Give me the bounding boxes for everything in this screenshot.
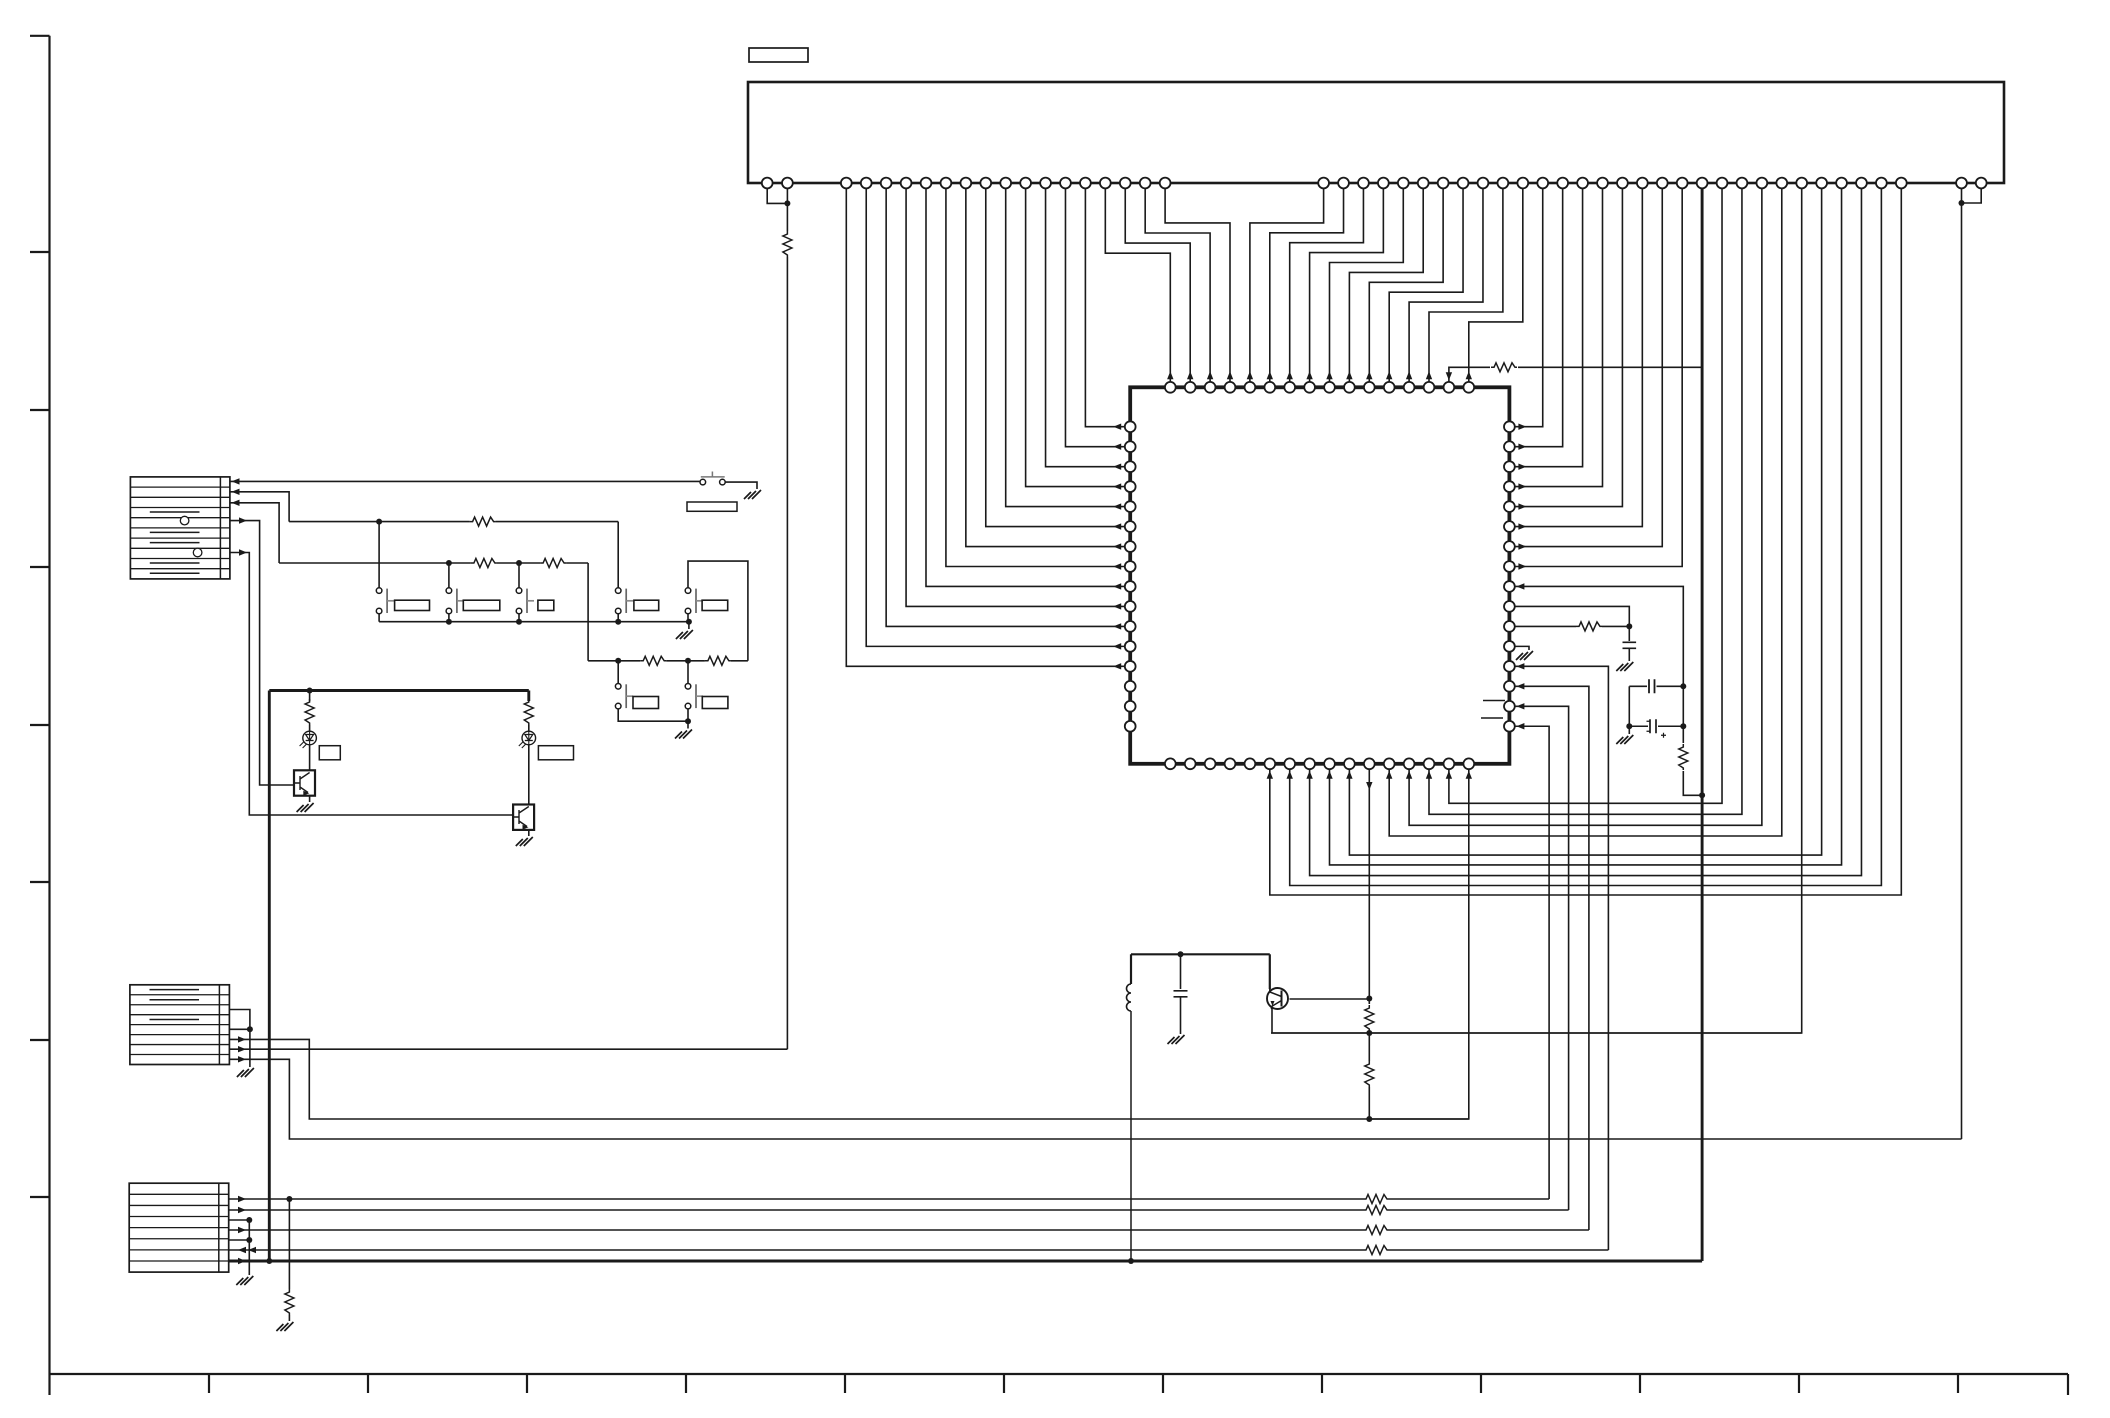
wire S1 to ground bbox=[725, 482, 757, 489]
wire CN1 group1 pin14 staircase to IC top pin 1 bbox=[1105, 183, 1170, 382]
wire CN1 group2 pin6 staircase to IC top pin 10 bbox=[1349, 183, 1423, 382]
label box for LED D2 bbox=[538, 746, 573, 760]
arrow out of IC right pin 7 bbox=[1518, 543, 1526, 549]
wire IC bottom pin 16 down to row-C net bbox=[1369, 769, 1469, 1119]
junction rail / LED D1 branch bbox=[307, 688, 313, 694]
wire CN1 group2 pin17 down to IC right pin 6 bbox=[1515, 183, 1643, 527]
wire row C corner down to lower bus bbox=[587, 563, 589, 661]
wire CN1 group2 pin2 staircase to IC top pin 6 bbox=[1270, 183, 1344, 382]
arrow out of IC right pin 8 bbox=[1518, 563, 1526, 569]
wire bus1 to ground bbox=[688, 622, 690, 629]
arrow into IC bottom pin bbox=[1287, 771, 1293, 779]
junction row C / key S3 bbox=[446, 560, 452, 566]
wire CN1 group2 pin3 staircase to IC top pin 7 bbox=[1290, 183, 1364, 382]
wire CN1 group1 pin1 to IC left pin 13 bbox=[846, 183, 1125, 666]
connector CN3 body bbox=[130, 985, 230, 1065]
arrow out of CN2 row4 bbox=[239, 517, 247, 523]
ground below C4 bbox=[1168, 1035, 1185, 1044]
wire Q2 emitter to ground bbox=[528, 830, 530, 836]
resistor R5 bbox=[1365, 1061, 1374, 1087]
connector CN2 pin column divider bbox=[219, 477, 221, 579]
ground below R14 bbox=[276, 1322, 293, 1331]
wire CN1 group1 pin10 to IC left pin 4 bbox=[1026, 183, 1125, 487]
wire CN4 ground stub down bbox=[248, 1220, 250, 1275]
wire key S4 stem bbox=[518, 563, 520, 588]
arrow out of IC top pin 3 bbox=[1207, 371, 1213, 379]
junction lower bus / key S7 bbox=[615, 658, 621, 664]
capacitor C1 bbox=[1623, 642, 1637, 648]
wire CN4 row2 key-scan net bbox=[229, 1209, 1363, 1211]
ground below CN4 bbox=[236, 1276, 253, 1285]
page border left ruler bbox=[30, 36, 50, 1395]
resistor R7 on row C bbox=[471, 559, 497, 568]
arrow out of IC top pin 6 bbox=[1267, 371, 1273, 379]
key S8 bbox=[695, 684, 697, 708]
arrow out of CN4 row4 bbox=[238, 1227, 246, 1233]
wire CN1 group2 pin9 staircase to IC top pin 13 bbox=[1409, 183, 1483, 382]
IC U1 internal mark near right pin 16 bbox=[1481, 717, 1503, 719]
wire CN1 group2 pin7 staircase to IC top pin 11 bbox=[1369, 183, 1443, 382]
wire R2 to power vertical bbox=[1683, 771, 1702, 795]
arrow out of IC right pin 6 bbox=[1518, 523, 1526, 529]
wire IC right pin 11 with resistor R3 bbox=[1515, 625, 1576, 627]
connector CN4 body bbox=[129, 1183, 229, 1272]
wire key S7 stem bbox=[617, 661, 619, 684]
wire CN1 group1 pin7 to IC left pin 7 bbox=[966, 183, 1125, 547]
wire CN1 group1 pin15 staircase to IC top pin 2 bbox=[1125, 183, 1190, 382]
wire CN1 group2 pin13 down to IC right pin 2 bbox=[1515, 183, 1563, 447]
wire CN2 row5 to transistor Q2 base bbox=[230, 553, 512, 816]
arrow into IC left pin 1 bbox=[1113, 424, 1121, 430]
arrow out of IC top pin 10 bbox=[1346, 371, 1352, 379]
junction bus2 / ground bbox=[685, 718, 691, 724]
arrows into CN4 row6 bbox=[238, 1247, 246, 1253]
wire CN3 rowA stub bbox=[229, 1010, 250, 1030]
arrow out of IC right pin 1 bbox=[1518, 424, 1526, 430]
arrow out of CN4 row1 bbox=[238, 1196, 246, 1202]
wire R14 to ground bbox=[288, 1315, 290, 1321]
wire rail right corner down to R12 bbox=[527, 691, 530, 702]
wire crystal cap line C2 bbox=[1629, 685, 1647, 687]
resistor R3 bbox=[1576, 622, 1602, 631]
power switch S1 contacts bbox=[700, 479, 706, 485]
wire D1 to Q1 collector bbox=[309, 745, 311, 771]
resistor R1 bbox=[783, 231, 792, 257]
arrow out of IC right pin 5 bbox=[1518, 503, 1526, 509]
wire IC right pin 15 down to key-scan row bbox=[1515, 706, 1569, 1210]
junction Q3 base / pin11 wire bbox=[1366, 996, 1372, 1002]
connector CN3 pin column divider bbox=[218, 985, 220, 1065]
junction bus1 / S6 / ground bbox=[686, 619, 692, 625]
connector CN4 partition lines bbox=[129, 1194, 229, 1261]
wire CN1 group1 pin16 staircase to IC top pin 3 bbox=[1145, 183, 1210, 382]
junction bus1 / S3 bbox=[446, 619, 452, 625]
wire row B corner down to key S5 bbox=[617, 522, 619, 588]
power switch S1 actuator bar bbox=[701, 472, 725, 477]
arrow into IC bottom pin bbox=[1386, 771, 1392, 779]
transistor Q1 bbox=[294, 770, 315, 795]
wire CN1 group1 pin5 to IC left pin 9 bbox=[926, 183, 1125, 586]
resistor R8 on row C bbox=[540, 559, 566, 568]
wire CN1 group2 pin19 down to IC right pin 8 bbox=[1515, 183, 1682, 566]
arrow into IC left pin 11 bbox=[1113, 623, 1121, 629]
wire CN1 group1 pin4 to IC left pin 10 bbox=[906, 183, 1125, 606]
transistor Q2 bbox=[513, 805, 534, 830]
wire CN1 group1 pin2 to IC left pin 12 bbox=[866, 183, 1125, 646]
inductor L1 bbox=[1127, 984, 1132, 1011]
wire key S8 stem bbox=[687, 661, 689, 684]
wire CN2 row3 elbow down to key row C bbox=[230, 503, 279, 563]
power row wire (thick) bbox=[229, 1260, 1702, 1263]
wire CN1 right pin elbow bbox=[1962, 183, 1982, 203]
connector CN2 partition lines bbox=[130, 487, 230, 569]
wire rail left down to inductor L1 bbox=[1130, 954, 1132, 984]
arrow into IC top pin 15 from pull-up bbox=[1449, 367, 1490, 382]
arrow out of IC top pin 8 bbox=[1306, 371, 1312, 379]
arrow into IC left pin 6 bbox=[1113, 523, 1121, 529]
resistor R10 on lower bus bbox=[705, 656, 731, 665]
wire R5 down to row-C net bbox=[1368, 1087, 1370, 1119]
wire right pair vertical down to row-E net bbox=[1961, 183, 1963, 1139]
junction CN3 rowA/rowB bbox=[247, 1026, 253, 1032]
oscillator rail wire bbox=[1131, 953, 1270, 955]
connector CN2 inner contact lines bbox=[150, 512, 200, 573]
junction R3 / C1 node bbox=[1626, 623, 1632, 629]
junction row C / key S4 bbox=[516, 560, 522, 566]
wire R18 to power vertical bbox=[1518, 366, 1702, 368]
junction L1 / power row bbox=[1128, 1258, 1134, 1264]
connector CN2 contact circle A bbox=[180, 516, 189, 525]
CN1 pin circles bbox=[762, 178, 773, 189]
arrow into IC left pin 7 bbox=[1113, 543, 1121, 549]
junction row5 / ground stub bbox=[246, 1237, 252, 1243]
wire C4 stem bbox=[1180, 954, 1182, 989]
wire CN3 rowA/B to ground bbox=[249, 1029, 251, 1067]
wire IC right pin 10 to capacitor C1 bbox=[1515, 606, 1630, 641]
wire key S3 stem bbox=[448, 563, 450, 588]
arrow into IC right pin 14 bbox=[1516, 683, 1524, 689]
microcontroller IC U1 body bbox=[1130, 387, 1509, 764]
key S2 bbox=[386, 589, 388, 613]
arrow out of CN3 rowE bbox=[238, 1056, 246, 1062]
plus mark of C3 bbox=[1661, 733, 1666, 738]
arrow out of IC top pin 1 bbox=[1167, 371, 1173, 379]
arrow into IC bottom pin bbox=[1406, 771, 1412, 779]
LED D1 bbox=[303, 731, 317, 745]
wire S5 bottom stem bbox=[617, 614, 619, 622]
junction pin11 wire / emitter row bbox=[1366, 1030, 1372, 1036]
wire key S2 stem bbox=[378, 522, 380, 588]
wire S6 bottom stem bbox=[687, 614, 689, 622]
wire IC bottom pin 11 down to transistor Q3 node bbox=[1368, 769, 1370, 1004]
LED power rail (thick) bbox=[269, 689, 529, 692]
arrow out of CN4 row2 bbox=[238, 1207, 246, 1213]
arrow into CN2 row3 bbox=[232, 500, 240, 506]
resistor R11 bbox=[305, 699, 314, 725]
connector CN2 contact circle B bbox=[193, 548, 202, 557]
wire CN1 group2 nest pin to IC bottom pin via level 895.0 bbox=[1270, 183, 1902, 895]
arrow into IC bottom pin bbox=[1306, 771, 1312, 779]
wire S2 bottom stem bbox=[378, 614, 380, 622]
wire CN1 group2 nest pin to IC bottom pin via level 885.5 bbox=[1290, 183, 1882, 886]
capacitor C3 bbox=[1650, 719, 1656, 733]
IC U1 bottom pin circles bbox=[1165, 758, 1176, 769]
wire CN4 row5 stub bbox=[229, 1239, 250, 1241]
key row B wire bbox=[289, 521, 470, 523]
arrow into IC right pin 16 bbox=[1516, 723, 1524, 729]
wire CN3 rowB stub bbox=[229, 1028, 250, 1030]
wire C3 left to ground bbox=[1628, 726, 1630, 734]
wire CN1 group2 nest pin to IC bottom pin via level 825.3 bbox=[1409, 183, 1762, 825]
arrow out of CN4 row7 bbox=[238, 1258, 246, 1264]
IC U1 left pin circles bbox=[1125, 421, 1136, 432]
wire IC right pin 12 to ground bbox=[1515, 646, 1529, 650]
label box for LED D1 bbox=[319, 746, 340, 760]
arrow into IC left pin 13 bbox=[1113, 663, 1121, 669]
key S7 bbox=[625, 684, 627, 708]
wire R12 to LED D2 bbox=[528, 725, 530, 731]
page border bottom ruler bbox=[50, 1374, 2069, 1395]
wire CN1 group2 pin25 long vertical down to Q3 emitter row bbox=[1271, 183, 1802, 1033]
arrow into IC bottom pin bbox=[1346, 771, 1352, 779]
wire CN1 group1 pin11 to IC left pin 3 bbox=[1046, 183, 1125, 467]
IC U1 right pin circles bbox=[1504, 421, 1515, 432]
wire CN3 rowD to pull-up net bbox=[229, 1048, 787, 1050]
wire IC right pin 14 down to key-scan row bbox=[1515, 686, 1589, 1230]
wire CN1 group2 nest pin to IC bottom pin via level 803.3 bbox=[1449, 183, 1722, 803]
wire S3 bottom stem bbox=[448, 614, 450, 622]
keys bottom bus row1 bbox=[379, 621, 689, 623]
resistor R6 on row B bbox=[470, 517, 496, 526]
wire Q1 emitter to ground bbox=[309, 796, 311, 802]
wire IC right pin 9 to crystal line bbox=[1515, 586, 1684, 743]
junction crystal line / power vertical bbox=[1699, 792, 1705, 798]
arrow out of CN3 rowC bbox=[238, 1036, 246, 1042]
wire CN1 group2 nest pin to IC bottom pin via level 855.1 bbox=[1349, 183, 1821, 855]
junction row1 / pull-down resistor bbox=[286, 1196, 292, 1202]
display connector CN1 body bbox=[748, 82, 2004, 183]
arrow into IC left pin 12 bbox=[1113, 643, 1121, 649]
wire CN1 group2 pin10 staircase to IC top pin 14 bbox=[1429, 183, 1503, 382]
wire R11 to LED D1 bbox=[309, 725, 311, 731]
wire IC right pin 16 down to key-scan row bbox=[1515, 726, 1549, 1199]
power wire from CN1 group2 pin20 (thick) down to power row bbox=[1701, 183, 1704, 1261]
arrow into IC right pin 15 bbox=[1516, 703, 1524, 709]
ground at Q1 bbox=[297, 803, 314, 812]
label box for switch S1 bbox=[687, 502, 737, 511]
junction C3 left bbox=[1626, 723, 1632, 729]
wire C4 to ground bbox=[1180, 997, 1182, 1034]
transistor Q3 bbox=[1267, 988, 1288, 1009]
arrow into CN2 row2 bbox=[232, 489, 240, 495]
wire CN3 rowC to row-C long net bbox=[229, 1039, 1468, 1119]
resistor R17 on row6 bbox=[1363, 1246, 1389, 1255]
arrow into IC left pin 5 bbox=[1113, 503, 1121, 509]
capacitor C2 bbox=[1649, 679, 1655, 693]
wire CN1 group1 pin13 to IC left pin 1 bbox=[1085, 183, 1124, 427]
arrow out of IC top pin 12 bbox=[1386, 371, 1392, 379]
ground below C1 bbox=[1616, 662, 1633, 671]
wire CN1 group2 pin18 down to IC right pin 7 bbox=[1515, 183, 1662, 547]
arrow out of IC top pin 5 bbox=[1247, 371, 1253, 379]
wire S4 bottom stem bbox=[518, 614, 520, 622]
wire CN1 group2 pin5 staircase to IC top pin 9 bbox=[1330, 183, 1404, 382]
wire CN1 group2 pin16 down to IC right pin 5 bbox=[1515, 183, 1623, 507]
arrow out of IC top pin 11 bbox=[1366, 371, 1372, 379]
ground at S1 bbox=[744, 490, 761, 499]
connector CN3 inner contact lines bbox=[150, 990, 200, 1020]
ground at bus2 bbox=[675, 730, 692, 739]
connector CN4 pin column divider bbox=[218, 1183, 220, 1272]
resistor R2 on crystal line bbox=[1679, 744, 1688, 770]
resistor R16 on row4 bbox=[1363, 1226, 1389, 1235]
wire CN4 row3 stub bbox=[229, 1219, 250, 1221]
key S4 bbox=[526, 589, 528, 613]
key S3 bbox=[456, 589, 458, 613]
junction row3 / ground stub bbox=[246, 1217, 252, 1223]
wire CN2 row1 (power switch net) bbox=[230, 480, 700, 482]
junction pin11 net / row-C bbox=[1366, 1116, 1372, 1122]
junction thick power / power row bbox=[266, 1258, 272, 1264]
wire CN1 group2 nest pin to IC bottom pin via level 814.3 bbox=[1429, 183, 1742, 814]
arrow into IC bottom pin 16 bbox=[1466, 771, 1472, 779]
wire R4 to emitter row bbox=[1368, 1031, 1370, 1033]
wire IC right pin 13 down to key-scan row bbox=[1515, 666, 1609, 1250]
wire CN2 row2 elbow down to key row B bbox=[230, 492, 289, 522]
junction bus1 / S4 bbox=[516, 619, 522, 625]
lower key bus wire bbox=[588, 660, 640, 662]
label box for connector CN1 bbox=[749, 48, 808, 62]
arrow out of IC right pin 4 bbox=[1518, 483, 1526, 489]
wire CN1 group2 pin12 down to IC right pin 1 bbox=[1515, 183, 1543, 427]
arrow into CN2 row1 bbox=[232, 478, 240, 484]
LED D2 bbox=[522, 731, 536, 745]
resistor R4 on pin11 wire bbox=[1365, 1005, 1374, 1031]
junction lower bus / key S8 bbox=[685, 658, 691, 664]
junction C2 right on crystal line bbox=[1680, 683, 1686, 689]
wire R1 down to row-D net bbox=[786, 257, 788, 1049]
arrow out of IC right pin 3 bbox=[1518, 463, 1526, 469]
junction bus1 / S5 bbox=[615, 619, 621, 625]
arrow out of IC right pin 2 bbox=[1518, 443, 1526, 449]
key S5 bbox=[625, 589, 627, 613]
wire CN1 group2 nest pin to IC bottom pin via level 864.9 bbox=[1330, 183, 1842, 865]
wire CN1 group1 pin17 staircase to IC top pin 4 bbox=[1165, 183, 1230, 382]
wire R3 to C1 node bbox=[1602, 625, 1629, 627]
wire CN1 group2 pin4 staircase to IC top pin 8 bbox=[1310, 183, 1384, 382]
ground at bus1 bbox=[676, 630, 693, 639]
IC U1 top pin circles bbox=[1165, 382, 1176, 393]
resistor R9 on lower bus bbox=[640, 656, 666, 665]
connector CN3 partition lines bbox=[130, 995, 230, 1055]
keys bottom bus row2 bbox=[618, 709, 688, 721]
wire Q3 emitter row to CN1 pin25 vertical bbox=[1272, 1008, 1802, 1033]
connector CN2 body bbox=[130, 477, 230, 579]
arrow into IC right pin 9 bbox=[1516, 583, 1524, 589]
arrow into IC left pin 3 bbox=[1113, 463, 1121, 469]
wire CN3 rowE to row-E long net bbox=[229, 1059, 1961, 1139]
arrow into IC bottom pin bbox=[1446, 771, 1452, 779]
wire D1 branch upper bbox=[309, 691, 311, 702]
arrow out of IC top pin 13 bbox=[1406, 371, 1412, 379]
IC U1 internal mark near right pin 15 bbox=[1483, 700, 1505, 702]
arrow out of IC top pin 2 bbox=[1187, 371, 1193, 379]
arrow into IC left pin 9 bbox=[1113, 583, 1121, 589]
arrow out of IC top pin 7 bbox=[1287, 371, 1293, 379]
wire CN4 row4 key-scan net bbox=[229, 1229, 1363, 1231]
page border left tick marks bbox=[30, 252, 50, 1197]
ground at Q2 bbox=[516, 837, 533, 846]
arrow out of IC top pin 9 bbox=[1326, 371, 1332, 379]
resistor R18 pull-up for IC top pin 15 bbox=[1491, 363, 1517, 372]
wire L1 down to power row bbox=[1130, 1011, 1132, 1261]
arrow into IC left pin 10 bbox=[1113, 603, 1121, 609]
wire CN1 group2 pin8 staircase to IC top pin 12 bbox=[1389, 183, 1463, 382]
wire CN1 group1 pin6 to IC left pin 8 bbox=[946, 183, 1125, 566]
wire CN1 group2 pin11 staircase to IC top pin 16 bbox=[1469, 183, 1523, 382]
wire crystal cap line C3 electrolytic bbox=[1629, 725, 1648, 727]
arrow into IC bottom pin bbox=[1426, 771, 1432, 779]
arrow into IC left pin 8 bbox=[1113, 563, 1121, 569]
wire pin2 vertical to resistor R1 bbox=[786, 183, 788, 231]
wire pull-down stem bbox=[288, 1199, 290, 1289]
junction rail / capacitor C4 bbox=[1178, 951, 1184, 957]
capacitor C4 bbox=[1174, 991, 1188, 997]
wire CN1 group2 pin15 down to IC right pin 4 bbox=[1515, 183, 1603, 487]
junction right pair net bbox=[1959, 200, 1965, 206]
wire CN1 group1 pin3 to IC left pin 11 bbox=[886, 183, 1125, 626]
wire key S6 top link bbox=[688, 561, 748, 661]
arrow out of IC top pin 4 bbox=[1227, 371, 1233, 379]
arrow out of CN2 row5 bbox=[239, 549, 247, 555]
wire D2 to Q2 collector bbox=[528, 745, 530, 805]
arrow into IC left pin 4 bbox=[1113, 483, 1121, 489]
junction row B / key S2 bbox=[376, 519, 382, 525]
wire CN1 group1 pin8 to IC left pin 6 bbox=[986, 183, 1125, 527]
arrow out of CN3 rowD bbox=[238, 1046, 246, 1052]
wire CN1 pin1 elbow to pin2 net bbox=[767, 183, 787, 203]
ground below C3 bbox=[1616, 735, 1633, 744]
wire CN4 row6 key-scan net bbox=[229, 1249, 1363, 1251]
arrow into IC bottom pin bbox=[1267, 771, 1273, 779]
resistor R13 on row1 bbox=[1363, 1195, 1389, 1204]
wire CN1 group1 pin9 to IC left pin 5 bbox=[1006, 183, 1125, 507]
ground at IC right pin 12 bbox=[1516, 651, 1533, 660]
junction C3 right on crystal line bbox=[1680, 723, 1686, 729]
resistor R12 bbox=[524, 699, 533, 725]
arrow out of IC top pin 14 bbox=[1426, 371, 1432, 379]
wire CN1 group1 pin12 to IC left pin 2 bbox=[1065, 183, 1124, 447]
wire CN1 group2 nest pin to IC bottom pin via level 875.6 bbox=[1310, 183, 1862, 876]
arrow into IC left pin 2 bbox=[1113, 443, 1121, 449]
arrow into IC right pin 13 bbox=[1516, 663, 1524, 669]
wire rail left corner down (thick power) bbox=[268, 691, 271, 1262]
wire C1 to ground bbox=[1628, 648, 1630, 661]
wire CN1 group2 pin1 staircase to IC top pin 5 bbox=[1250, 183, 1324, 382]
page border bottom tick marks bbox=[209, 1374, 1958, 1393]
key S6 bbox=[695, 589, 697, 613]
wire CN2 row4 to transistor Q1 base bbox=[230, 521, 294, 785]
wire bus2 to ground bbox=[687, 721, 689, 728]
wire emitter row junction down through R5 bbox=[1368, 1033, 1370, 1061]
arrow out of IC top pin 16 bbox=[1466, 371, 1472, 379]
wire Q3 base to pin11 node bbox=[1290, 998, 1370, 1000]
wire rail right down to transistor Q3 collector bbox=[1269, 954, 1271, 989]
key row C wire bbox=[279, 562, 471, 564]
junction pin1/pin2 net bbox=[784, 200, 790, 206]
resistor R14 pull-down bbox=[285, 1289, 294, 1315]
arrow out of IC bottom pin 11 bbox=[1366, 782, 1372, 790]
